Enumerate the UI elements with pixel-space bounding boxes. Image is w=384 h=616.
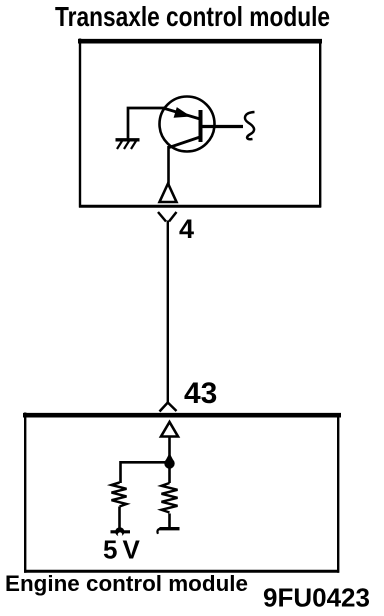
wire: main vertical harness wire: [167, 221, 169, 404]
junction dot node A: [164, 458, 174, 468]
termination bar (internal connection): [157, 529, 179, 534]
svg-text:4: 4: [179, 214, 194, 244]
wire: junction to left branch: [121, 462, 170, 483]
connector inverted Y (pin 43 socket): [160, 403, 177, 412]
wire: R1 to 5V terminal: [118, 507, 121, 531]
svg-text:5: 5: [103, 535, 117, 565]
ground G1 (chassis ground): [116, 140, 140, 149]
arrowhead on wire (pointing up): [165, 453, 175, 463]
module box U2: engine control module outline: [23, 413, 341, 573]
wire: junction down to R2: [168, 464, 171, 483]
svg-text:V: V: [123, 535, 141, 565]
resistor R1 (pull-up to 5V): [112, 483, 127, 507]
wire: collector down to pin: [167, 146, 170, 185]
wire: emitter to ground corner: [128, 108, 169, 139]
terminal: 5V supply: [111, 527, 131, 537]
module box U1: transaxle control module outline: [78, 39, 322, 208]
connector squiggle (harness continuation): [245, 112, 255, 139]
svg-text:9FU0423: 9FU0423: [263, 583, 370, 613]
connector pin triangle (bottom box): [161, 422, 178, 437]
resistor R2: [162, 483, 178, 513]
wire: R2 down to termination: [168, 514, 171, 528]
connector pin triangle (top box): [160, 184, 177, 203]
svg-text:Transaxle control module: Transaxle control module: [55, 1, 330, 32]
svg-text:Engine control module: Engine control module: [5, 571, 248, 596]
wire: pin down to junction: [168, 437, 171, 463]
transistor Q1: [160, 97, 244, 152]
svg-text:43: 43: [184, 377, 217, 410]
connector Y (pin 4 socket): [158, 212, 177, 222]
